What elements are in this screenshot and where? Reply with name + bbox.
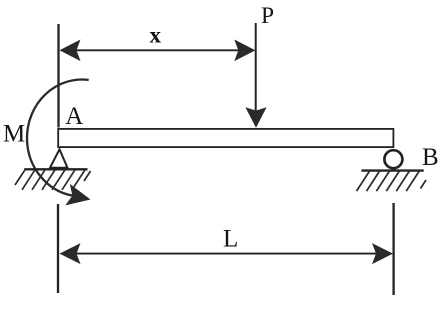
extension line at A (top segment) [57, 24, 59, 128]
ground line at A [24, 168, 87, 170]
moment arc M [27, 80, 89, 196]
extension line at B [392, 203, 394, 295]
roller support at B [384, 150, 402, 168]
dimension x right arrowhead [234, 40, 255, 62]
dimension line L [62, 253, 390, 255]
dimension line x [62, 49, 252, 51]
svg-text:B: B [422, 144, 439, 171]
ground hatching at B [357, 171, 427, 191]
load line P [255, 23, 257, 112]
svg-text:L: L [223, 226, 238, 253]
dimension L left arrowhead [60, 243, 81, 264]
extension line at A (bottom segment) [57, 204, 59, 293]
dimension x left arrowhead [60, 40, 81, 62]
load P arrowhead [245, 107, 266, 128]
beam AB [58, 129, 393, 147]
dimension L right arrowhead [372, 243, 393, 264]
svg-text:A: A [65, 103, 83, 130]
moment arc arrowhead [65, 184, 90, 206]
svg-text:M: M [3, 121, 25, 148]
svg-text:x: x [149, 23, 161, 48]
svg-text:P: P [261, 3, 274, 29]
ground hatching at A [15, 170, 91, 190]
ground line at B [361, 169, 423, 171]
pin support at A [50, 149, 68, 168]
